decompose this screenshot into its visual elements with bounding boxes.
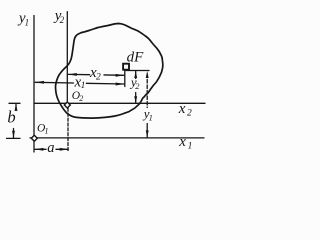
svg-text:b: b — [7, 108, 15, 127]
dimension b line upper segment — [15, 104, 17, 111]
axis x2 left tick — [9, 102, 20, 104]
dimension a line left segment — [35, 148, 46, 150]
arrow y2 top — [134, 71, 137, 78]
axis y2 lower extension — [67, 108, 69, 151]
arrow y2 bottom — [134, 96, 137, 103]
dimension x1 line left segment — [35, 81, 73, 84]
dimension y1 line lower segment — [146, 124, 148, 138]
axis y1 — [33, 16, 35, 153]
origin O1 diamond — [31, 135, 37, 141]
dimension b line lower segment — [13, 129, 15, 138]
arrow y1 top — [146, 71, 149, 78]
arrow a right — [60, 148, 69, 151]
arrow a left — [35, 148, 44, 151]
area blob outline — [56, 24, 163, 119]
arrow x2 left — [68, 73, 77, 76]
arrow b top — [15, 104, 18, 111]
arrow x1 left — [35, 81, 44, 84]
shelf line under dF extending right — [126, 70, 149, 72]
dimension y2 line upper segment — [135, 71, 137, 79]
dimension a line right segment — [56, 148, 68, 150]
arrow x1 right — [116, 83, 125, 86]
dimension y1 line upper segment — [146, 74, 148, 108]
origin O2 diamond — [64, 102, 70, 108]
svg-text:dF: dF — [127, 50, 145, 66]
dimension y2 line lower segment — [135, 93, 137, 104]
arrow b bottom — [12, 131, 15, 138]
svg-text:a: a — [47, 140, 54, 156]
arrow y1 bottom — [146, 130, 149, 137]
extension line below dF square — [124, 71, 126, 87]
axis x1 — [30, 137, 204, 139]
axis x2 — [34, 102, 205, 104]
dimension x2 line left segment — [68, 73, 90, 75]
dF element square — [123, 64, 129, 70]
axis y2 upper — [66, 12, 68, 102]
dimension x2 line right segment — [104, 74, 124, 76]
dimension x1 line right segment — [86, 82, 124, 85]
arrow x2 right — [116, 74, 125, 77]
axis x1 left tick — [7, 137, 21, 139]
